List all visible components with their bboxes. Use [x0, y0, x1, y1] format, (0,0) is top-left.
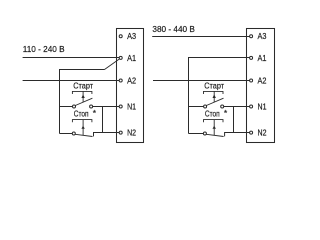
svg-text:Стоп: Стоп [74, 109, 89, 119]
svg-text:380 - 440 В: 380 - 440 В [152, 24, 195, 34]
svg-text:A3: A3 [258, 31, 267, 41]
svg-text:N2: N2 [258, 128, 267, 138]
svg-text:A2: A2 [127, 76, 136, 86]
svg-text:110 - 240 В: 110 - 240 В [23, 44, 65, 54]
svg-text:N1: N1 [258, 102, 267, 112]
svg-text:A1: A1 [258, 53, 267, 63]
svg-text:N2: N2 [127, 128, 136, 138]
svg-text:A1: A1 [127, 53, 136, 63]
svg-text:A3: A3 [127, 31, 136, 41]
svg-text:N1: N1 [127, 102, 136, 112]
svg-text:Стоп: Стоп [205, 109, 220, 119]
svg-text:Старт: Старт [204, 80, 224, 90]
svg-text:A2: A2 [258, 76, 267, 86]
svg-text:Старт: Старт [73, 80, 93, 90]
